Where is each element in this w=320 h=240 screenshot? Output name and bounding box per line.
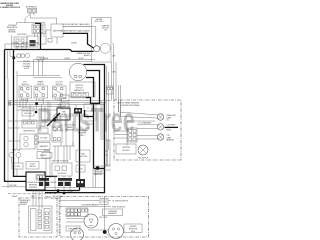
- svg-text:METER: METER: [30, 166, 37, 168]
- svg-text:ALTERNATOR: ALTERNATOR: [26, 6, 38, 9]
- svg-text:FUEL PUMP: FUEL PUMP: [68, 228, 78, 230]
- svg-text:(AMBER): (AMBER): [167, 139, 175, 142]
- wire battery left lead: [5, 30, 57, 49]
- svg-text:(RED): (RED): [80, 135, 85, 137]
- voltage regulator label: [7, 24, 18, 34]
- svg-text:STARTER SOLENOID: STARTER SOLENOID: [52, 160, 70, 163]
- svg-text:VIEWED: VIEWED: [20, 204, 27, 206]
- junction square: [35, 102, 38, 105]
- connector with sockets: [20, 134, 38, 149]
- svg-text:MODULE: MODULE: [24, 113, 32, 115]
- fuel pump: [71, 228, 84, 240]
- svg-text:J5 MOWER HARNESS: J5 MOWER HARNESS: [81, 203, 99, 206]
- wires from cover box down to connector: [33, 190, 42, 210]
- svg-text:MODULE: MODULE: [60, 116, 68, 118]
- svg-text:SW: SW: [63, 106, 66, 108]
- svg-text:16: 16: [106, 151, 108, 153]
- svg-text:(BLACK): (BLACK): [84, 54, 91, 57]
- junction dot: [13, 57, 16, 60]
- svg-text:SEAT: SEAT: [62, 97, 66, 100]
- wire thick L: [85, 110, 94, 117]
- svg-text:FUSE 20A: FUSE 20A: [12, 149, 21, 152]
- svg-text:(VIEWED): (VIEWED): [29, 187, 37, 189]
- relay K1 black: [74, 108, 82, 114]
- ring terminals: [8, 101, 10, 103]
- svg-text:(VIEWED FROM REAR): (VIEWED FROM REAR): [121, 104, 140, 107]
- svg-text:ENGINE): ENGINE): [8, 32, 15, 34]
- panel label box: [116, 144, 136, 154]
- svg-text:SWITCH: SWITCH: [22, 84, 29, 86]
- svg-text:HARNESS: HARNESS: [66, 128, 75, 131]
- svg-text:FUEL SOLENOID: FUEL SOLENOID: [112, 206, 126, 208]
- small switch boxes: [60, 95, 69, 101]
- svg-text:NEGATIVE BATTERY CABLE (BLACK): NEGATIVE BATTERY CABLE (BLACK): [60, 29, 90, 32]
- svg-text:PLUG: PLUG: [78, 168, 83, 170]
- svg-text:AS VIEWED FROM PLUG: AS VIEWED FROM PLUG: [0, 6, 21, 9]
- deck wires: [66, 219, 109, 231]
- left stacked boxes: [37, 134, 50, 141]
- svg-text:HARNESS: HARNESS: [94, 173, 103, 176]
- svg-text:WHITE: WHITE: [45, 197, 51, 199]
- cover black harness box: [26, 172, 45, 190]
- wire regulator leads down: [35, 34, 45, 38]
- wire junction leads: [8, 105, 57, 122]
- svg-text:(RED): (RED): [167, 130, 172, 132]
- wire ground bus thick: [5, 50, 94, 52]
- fuse block F1: [57, 104, 70, 120]
- svg-text:GROUND: GROUND: [9, 185, 17, 187]
- junction dot: [103, 230, 107, 234]
- headlight lamp: [157, 114, 176, 122]
- relay box: [22, 120, 37, 128]
- right bus verticals: [112, 45, 121, 117]
- wire thick diagonal: [47, 113, 60, 126]
- wire positive battery cable: [63, 26, 92, 28]
- switch row: clutch switch: [53, 82, 67, 102]
- svg-text:BLACK: BLACK: [12, 195, 18, 198]
- note text top-left: [0, 2, 21, 9]
- svg-text:SHUTOFF: SHUTOFF: [79, 156, 87, 158]
- starter motor M: [100, 43, 110, 53]
- connector row: [72, 93, 89, 98]
- svg-text:POSITIVE BATTERY CABLE (RED): POSITIVE BATTERY CABLE (RED): [62, 23, 89, 26]
- engine box: [92, 18, 112, 63]
- voltage regulator connector: [32, 24, 45, 34]
- svg-text:HARNESS: HARNESS: [108, 212, 117, 215]
- wire ignition thick mid: [87, 71, 100, 169]
- svg-text:(S/N 1001-): (S/N 1001-): [95, 21, 104, 23]
- svg-text:OIL PRESS SWITCH: OIL PRESS SWITCH: [112, 200, 129, 202]
- inline connector on battery lead: [48, 39, 52, 43]
- svg-text:KEY SWITCH: KEY SWITCH: [138, 158, 149, 160]
- hour meter box: [26, 162, 39, 170]
- extra routing wires: [20, 99, 50, 126]
- wire second thick vertical: [14, 50, 27, 177]
- left column: interlock module: [22, 108, 34, 116]
- dashes above bottom box: [8, 193, 57, 195]
- small box: [38, 128, 48, 133]
- svg-text:MODULE: MODULE: [122, 150, 130, 152]
- oil pressure switch row: [100, 199, 108, 205]
- starter solenoid: [52, 160, 72, 176]
- wire alternator leads: [30, 13, 34, 18]
- svg-text:METER: METER: [44, 150, 51, 152]
- wire thick relay drop: [79, 114, 81, 191]
- svg-text:16 WHT: 16 WHT: [33, 42, 39, 44]
- wire thick from cover box right: [45, 175, 57, 177]
- svg-text:16 GRN: 16 GRN: [42, 58, 49, 60]
- pto lamp: [157, 134, 174, 142]
- deck motor: [109, 224, 124, 239]
- wire thick lamp feed: [165, 126, 179, 128]
- svg-text:TO J2 HARNESS: TO J2 HARNESS: [138, 121, 152, 124]
- svg-text:16 BLK: 16 BLK: [24, 68, 30, 70]
- view label box: [124, 224, 142, 233]
- svg-text:18: 18: [106, 155, 108, 157]
- svg-text:HARNESS: HARNESS: [39, 145, 48, 148]
- svg-text:J1: J1: [87, 107, 89, 109]
- ignition switch: [69, 63, 95, 97]
- wire negative battery cable thick to ground: [63, 33, 94, 48]
- junction dots on buses: [57, 189, 60, 192]
- switch row: brake switch: [34, 81, 48, 102]
- junction dot: [96, 166, 99, 169]
- svg-text:SWITCH: SWITCH: [56, 84, 63, 86]
- wires entering box top: [119, 100, 121, 117]
- svg-text:J1 CONN: J1 CONN: [40, 137, 48, 139]
- svg-text:EXCEPT: EXCEPT: [55, 198, 62, 200]
- right mid column: [76, 150, 90, 162]
- center connector: [84, 104, 92, 111]
- engine accessory harness box (bottom left): [19, 198, 57, 237]
- frame ground terminal: [94, 46, 100, 52]
- noise filter block: [8, 51, 61, 79]
- wire bundle under switches: [8, 101, 112, 107]
- svg-text:16 RED: 16 RED: [22, 42, 29, 44]
- wire bottom thick bus: [26, 190, 80, 192]
- svg-text:SPD CTRL: SPD CTRL: [99, 217, 107, 219]
- inner frame: [127, 121, 155, 146]
- svg-text:RELAY: RELAY: [51, 181, 57, 184]
- svg-text:(BLACK): (BLACK): [40, 154, 47, 157]
- wire alternator to battery: [30, 18, 56, 24]
- j4 engine harness: [103, 209, 123, 216]
- regulator sub-box with pins: [12, 34, 28, 49]
- svg-text:16 RED: 16 RED: [71, 42, 78, 44]
- wire thick spur to dot: [94, 167, 105, 169]
- wire alternator to regulator: [17, 14, 46, 25]
- accessory connector: [29, 200, 61, 237]
- wire left border thick: [5, 50, 27, 182]
- thin lines bottom band: [2, 186, 104, 189]
- wire switch drops: [22, 98, 62, 105]
- watermark: [37, 102, 135, 140]
- wire thick step: [86, 98, 100, 104]
- black relays bottom: [39, 178, 72, 186]
- wires into connector from left: [114, 131, 128, 138]
- left long verticals: [8, 71, 17, 188]
- label to control panel: [64, 125, 75, 132]
- switch row: PTO switch: [19, 82, 32, 102]
- svg-text:SWITCH: SWITCH: [37, 84, 44, 86]
- battery B1: [51, 24, 63, 37]
- svg-text:RECTIFIER: RECTIFIER: [18, 34, 28, 36]
- wire thick regulator feed: [35, 23, 41, 49]
- wire mid horizontals: [17, 61, 92, 63]
- speed control: [84, 214, 98, 228]
- svg-text:(MAGNETO): (MAGNETO): [74, 89, 84, 92]
- svg-text:16 BLK: 16 BLK: [12, 42, 18, 44]
- lamp wires: [119, 112, 158, 118]
- svg-text:12: 12: [112, 44, 114, 46]
- wire ignition thick top: [45, 65, 105, 193]
- svg-text:DIODE: DIODE: [40, 126, 46, 128]
- wires grid mid: [52, 142, 75, 163]
- fuse box dark: [27, 36, 38, 47]
- svg-text:16 RED: 16 RED: [64, 58, 71, 60]
- module M2: [52, 126, 62, 142]
- panel connector: [128, 128, 138, 142]
- oil pressure lamp: [157, 124, 176, 132]
- label to engine harness: [77, 130, 87, 137]
- svg-text:16 BLK: 16 BLK: [78, 58, 84, 60]
- svg-text:SEAT SWITCH: SEAT SWITCH: [23, 129, 35, 132]
- deck connector grid: [66, 208, 88, 217]
- control panel harness box: [114, 100, 181, 160]
- svg-text:SOLENOID: SOLENOID: [58, 173, 68, 175]
- mower deck harness box (bottom middle): [60, 197, 149, 238]
- alternator connector: [28, 8, 37, 13]
- key lamp: [138, 145, 148, 155]
